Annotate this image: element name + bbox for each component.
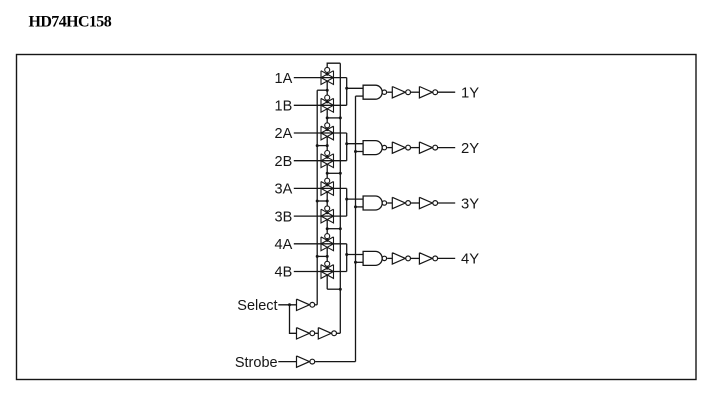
node select junction section 3 (326, 227, 329, 230)
label 4A (275, 237, 293, 253)
inverter INVS4 (297, 356, 315, 367)
node select-bar rail tap section 3 (316, 200, 319, 203)
node select rail tap section 1 (339, 116, 342, 119)
wire mux common node section 3 (346, 188, 348, 216)
wire stub to select rail section 2 (327, 172, 340, 174)
wire 1A input line (294, 77, 347, 79)
wire to output 1Y (438, 91, 455, 93)
svg-text:4Y: 4Y (461, 252, 479, 268)
label 3B (275, 209, 293, 225)
wire stub to select-bar rail section 1 (317, 89, 327, 91)
wire TG2 bottom control stem (326, 109, 328, 118)
inverter INV3b (419, 197, 437, 208)
node select-bar junction section 4 (326, 255, 329, 258)
wire Strobe input line (278, 361, 296, 363)
wire TG3 bottom control stem (326, 136, 328, 145)
label 4B (275, 265, 293, 281)
wire select inverter output to select-bar rail (315, 304, 317, 306)
node select rail tap section 4 (339, 288, 342, 291)
wire stub to select rail section 4 (327, 288, 340, 290)
node select-bar junction section 3 (326, 200, 329, 203)
svg-text:3B: 3B (275, 209, 293, 225)
wire TG4 bottom control stem (326, 164, 328, 173)
label 2B (275, 154, 293, 170)
inverter INV4a (392, 253, 410, 264)
wire mux common node section 2 (346, 133, 348, 161)
svg-text:3A: 3A (275, 182, 293, 198)
svg-text:HD74HC158: HD74HC158 (29, 14, 112, 31)
wire stub to select-bar rail section 3 (317, 200, 327, 202)
wire between select buffer inverters (315, 332, 318, 334)
node strobe rail tap section 2 (354, 150, 357, 153)
wire strobe to NAND input 2 section 4 (356, 261, 364, 263)
transmission gate TG8 (4B) (321, 261, 334, 278)
wire 1B input line (294, 104, 347, 106)
inverter INV3a (392, 197, 410, 208)
inverter INV1a (392, 87, 410, 98)
wire to NAND input 1 section 1 (347, 87, 363, 89)
node mux output tap section 4 (345, 253, 348, 256)
label 4Y (461, 252, 479, 268)
wire between inverters section 3 (411, 202, 420, 204)
wire 4A input line (294, 243, 347, 245)
title HD74HC158 (29, 14, 112, 31)
node mux output tap section 1 (345, 87, 348, 90)
transmission gate TG1 (1A) (321, 67, 334, 84)
svg-text:2B: 2B (275, 154, 293, 170)
inverter INVS2 (297, 328, 315, 339)
svg-text:3Y: 3Y (461, 196, 479, 212)
label 3A (275, 182, 293, 198)
wire select rail (339, 63, 341, 333)
transmission gate TG3 (2A) (321, 123, 334, 140)
wire NAND U2 output (387, 147, 392, 149)
wire 4B input line (294, 271, 347, 273)
wire Select branch down to buffer pair (290, 305, 297, 334)
wire TG7 bottom control stem (326, 247, 328, 256)
node select junction section 1 (326, 116, 329, 119)
svg-text:Strobe: Strobe (235, 355, 278, 371)
inverter INV4b (419, 253, 437, 264)
wire 2B input line (294, 160, 347, 162)
svg-text:Select: Select (237, 298, 277, 314)
NAND gate U4 (363, 251, 386, 265)
wire 3A input line (294, 187, 347, 189)
node mux output tap section 2 (345, 142, 348, 145)
svg-text:4A: 4A (275, 237, 293, 253)
wire between inverters section 1 (411, 91, 420, 93)
wire TG5 bottom control stem (326, 192, 328, 201)
wire stem to TG7 control circle (326, 229, 328, 234)
inverter INVS1 (297, 299, 315, 310)
wire to NAND input 1 section 3 (347, 198, 363, 200)
svg-text:1B: 1B (275, 99, 293, 115)
wire 2A input line (294, 132, 347, 134)
label 2A (275, 126, 293, 142)
transmission gate TG2 (1B) (321, 95, 334, 112)
NAND gate U1 (363, 85, 386, 99)
node select-bar junction section 2 (326, 144, 329, 147)
wire 3B input line (294, 215, 347, 217)
wire strobe rail (355, 96, 357, 362)
wire strobe to NAND input 2 section 2 (356, 151, 364, 153)
svg-text:1A: 1A (275, 71, 293, 87)
node strobe rail tap section 3 (354, 205, 357, 208)
wire stub to select rail section 3 (327, 228, 340, 230)
wire stub to select rail section 1 (327, 117, 340, 119)
transmission gate TG4 (2B) (321, 151, 334, 168)
wire between inverters section 2 (411, 147, 420, 149)
label Select (237, 298, 277, 314)
wire NAND U4 output (387, 257, 392, 259)
wire between inverters section 4 (411, 257, 420, 259)
NAND gate U3 (363, 196, 386, 210)
wire stem to TG4 control circle (326, 146, 328, 151)
wire stem to TG5 control circle (326, 173, 328, 178)
wire TG1 control circle to select rail (327, 63, 340, 67)
inverter INV2b (419, 142, 437, 153)
wire to output 3Y (438, 202, 455, 204)
wire strobe to NAND input 2 section 1 (356, 95, 364, 97)
node select-bar junction section 1 (326, 89, 329, 92)
wire strobe to NAND input 2 section 3 (356, 206, 364, 208)
label 2Y (461, 141, 479, 157)
wire TG8 bottom control stem (326, 275, 328, 289)
wire Select input line (278, 304, 296, 306)
label 3Y (461, 196, 479, 212)
wire to NAND input 1 section 2 (347, 143, 363, 145)
inverter INVS3 (318, 328, 336, 339)
svg-text:2Y: 2Y (461, 141, 479, 157)
wire stem to TG2 control circle (326, 90, 328, 95)
node select-bar rail tap section 4 (316, 255, 319, 258)
svg-text:4B: 4B (275, 265, 293, 281)
inverter INV1b (419, 87, 437, 98)
label 1A (275, 71, 293, 87)
NAND gate U2 (363, 141, 386, 155)
node select rail tap section 3 (339, 227, 342, 230)
transmission gate TG6 (3B) (321, 206, 334, 223)
node strobe rail tap section 4 (354, 261, 357, 264)
wire select buffer output to select rail (337, 332, 340, 334)
transmission gate TG7 (4A) (321, 234, 334, 251)
node select-bar rail tap section 2 (316, 144, 319, 147)
wire stub to select-bar rail section 4 (317, 255, 327, 257)
inverter INV2a (392, 142, 410, 153)
wire stem to TG8 control circle (326, 256, 328, 261)
label 1Y (461, 86, 479, 102)
wire mux common node section 1 (346, 78, 348, 106)
node select rail tap section 2 (339, 172, 342, 175)
wire to output 4Y (438, 257, 455, 259)
wire stem to TG6 control circle (326, 201, 328, 206)
wire to NAND input 1 section 4 (347, 254, 363, 256)
wire NAND U1 output (387, 91, 392, 93)
wire stub to select-bar rail section 2 (317, 145, 327, 147)
svg-text:2A: 2A (275, 126, 293, 142)
label 1B (275, 99, 293, 115)
wire stem to TG3 control circle (326, 118, 328, 123)
wire strobe inverter output to strobe rail (315, 361, 355, 363)
wire TG1 bottom control stem (326, 81, 328, 90)
node select junction section 2 (326, 172, 329, 175)
node mux output tap section 3 (345, 198, 348, 201)
wire select-bar rail (316, 90, 318, 305)
svg-text:1Y: 1Y (461, 86, 479, 102)
label Strobe (235, 355, 278, 371)
transmission gate TG5 (3A) (321, 178, 334, 195)
wire NAND U3 output (387, 202, 392, 204)
wire TG6 bottom control stem (326, 220, 328, 229)
node Select branch (288, 303, 291, 306)
wire mux common node section 4 (346, 244, 348, 272)
wire to output 2Y (438, 147, 455, 149)
